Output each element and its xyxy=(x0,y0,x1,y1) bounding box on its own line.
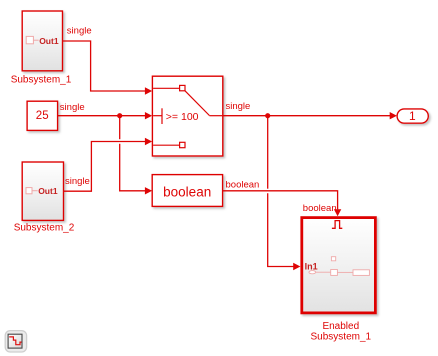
Enabled Subsystem label In1 xyxy=(305,262,318,272)
svg-text:Out1: Out1 xyxy=(39,36,59,46)
Switch icon selector diagonal xyxy=(185,91,222,116)
Enabled Subsystem enable pulse symbol xyxy=(332,221,342,229)
Subsystem_1 preview outport icon xyxy=(26,36,38,43)
label boolean (enable wire) xyxy=(303,203,337,214)
label single (Switch output) xyxy=(226,101,251,112)
svg-text:Out1: Out1 xyxy=(38,186,58,196)
wire Subsystem_1 to Switch input 1 xyxy=(63,41,153,95)
svg-text:1: 1 xyxy=(409,109,416,123)
block Subsystem_2 xyxy=(22,162,63,220)
svg-text:single: single xyxy=(60,102,85,113)
junction node on Switch output wire xyxy=(265,113,270,118)
block Data Type Conversion boolean xyxy=(152,175,222,207)
wire branch junction to boolean block xyxy=(120,116,152,195)
wire Switch output to Out1 port xyxy=(223,112,397,119)
label Enabled xyxy=(322,321,359,332)
block Switch xyxy=(152,76,222,156)
wire branch junction to In1 of Enabled Subsystem xyxy=(268,116,301,271)
Enabled Subsystem preview block square xyxy=(331,270,353,276)
wire Constant to Switch input 2 xyxy=(58,112,152,119)
Enabled Subsystem preview inport oval xyxy=(309,271,331,274)
wire Subsystem_2 to Switch input 3 xyxy=(64,138,153,191)
Subsystem_2 preview label Out1 xyxy=(38,186,58,196)
label single (Constant output) xyxy=(60,102,85,113)
label Subsystem_2 xyxy=(14,222,75,233)
svg-text:In1: In1 xyxy=(305,262,318,272)
badge sample time legend xyxy=(5,331,26,352)
label single (Subsystem_2 output) xyxy=(65,176,90,187)
svg-text:Subsystem_1: Subsystem_1 xyxy=(311,332,372,343)
svg-text:Enabled: Enabled xyxy=(322,321,359,332)
block Out1 port oval xyxy=(397,109,428,123)
svg-text:Subsystem_2: Subsystem_2 xyxy=(14,222,75,233)
wire boolean block to Enable port xyxy=(223,191,342,216)
label single (Subsystem_1 output) xyxy=(67,25,92,36)
label Subsystem_1 xyxy=(11,74,72,85)
Switch icon input 1 line and contact square xyxy=(153,85,185,90)
label Subsystem_1 (enabled subsystem) xyxy=(311,332,372,343)
block Constant 25 xyxy=(27,101,57,130)
svg-text:25: 25 xyxy=(36,110,49,122)
Subsystem_2 preview outport icon xyxy=(26,188,38,194)
junction node on Constant wire xyxy=(117,113,122,118)
svg-text:boolean: boolean xyxy=(163,185,211,200)
Switch icon threshold input line and tick xyxy=(153,108,162,124)
Enabled Subsystem preview small square xyxy=(331,257,335,261)
svg-text:>= 100: >= 100 xyxy=(166,111,199,123)
svg-text:single: single xyxy=(67,25,92,36)
svg-text:Subsystem_1: Subsystem_1 xyxy=(11,74,72,85)
label boolean (conversion output) xyxy=(226,180,260,191)
svg-text:boolean: boolean xyxy=(303,203,337,214)
block Subsystem_1 xyxy=(22,11,62,71)
svg-text:single: single xyxy=(65,176,90,187)
Switch icon input 3 line and contact square xyxy=(153,142,185,147)
Subsystem_1 preview label Out1 xyxy=(39,36,59,46)
svg-text:single: single xyxy=(226,101,251,112)
block Enabled Subsystem_1 xyxy=(302,218,376,313)
Switch label >= 100 xyxy=(166,111,199,123)
Enabled Subsystem preview wide block xyxy=(353,270,369,276)
svg-text:boolean: boolean xyxy=(226,180,260,191)
